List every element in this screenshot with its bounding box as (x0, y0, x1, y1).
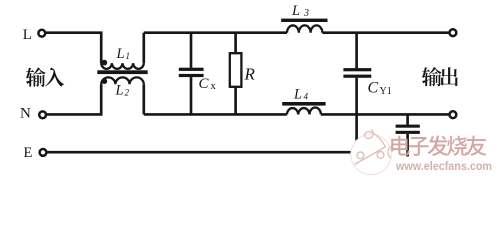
wire choke bottom right leg (142, 84, 145, 114)
svg-text:2: 2 (125, 88, 130, 98)
phase dot L1 (102, 60, 108, 66)
label L3 (291, 3, 309, 19)
svg-text:www.elecfans.com: www.elecfans.com (395, 159, 492, 173)
label 输出 (output) (422, 67, 458, 86)
svg-text:R: R (244, 65, 256, 84)
node E (earth terminal) (24, 145, 47, 161)
wire E ground rail (47, 151, 352, 154)
node N (neutral input terminal) (20, 106, 46, 122)
capacitor CY1 (343, 33, 371, 141)
svg-text:L: L (291, 3, 300, 19)
core of common-mode choke T1 (97, 70, 147, 74)
wire L input to choke (45, 33, 101, 64)
svg-text:L: L (116, 46, 125, 62)
capacitor CY2 (396, 114, 420, 156)
watermark logo bracket (388, 146, 392, 159)
capacitor Cx (179, 33, 204, 115)
watermark logo circle (351, 129, 391, 174)
svg-text:3: 3 (303, 8, 309, 19)
label 输入 (input) (26, 67, 64, 86)
svg-text:L: L (293, 87, 302, 103)
svg-text:N: N (20, 106, 31, 122)
svg-text:x: x (211, 81, 217, 92)
label L2 (115, 83, 130, 99)
svg-text:4: 4 (304, 92, 309, 102)
svg-text:Y1: Y1 (380, 86, 392, 97)
svg-text:1: 1 (126, 51, 131, 61)
inductor L3 (281, 19, 327, 33)
svg-text:L: L (23, 27, 32, 43)
node output bottom terminal (450, 111, 457, 118)
phase dot L2 (102, 78, 108, 84)
label L1 (116, 46, 131, 62)
wire bottom rail choke to L4 (144, 113, 287, 116)
node output top terminal (450, 29, 457, 36)
label L4 (293, 87, 309, 103)
label CY1 (368, 80, 392, 98)
inductor L1 winding (common-mode choke top) (101, 63, 144, 69)
node L (line input terminal) (23, 27, 45, 43)
svg-text:C: C (199, 76, 210, 92)
label Cx (199, 76, 217, 92)
inductor L4 (282, 102, 325, 114)
svg-text:C: C (368, 80, 379, 97)
svg-text:E: E (24, 145, 33, 161)
wire top rail choke to L3 (144, 31, 287, 34)
watermark text 电子发烧友 (391, 136, 486, 156)
wire N input to choke (46, 84, 101, 114)
wire choke top right leg (142, 33, 145, 64)
wire top rail L3 to output (322, 31, 449, 34)
wire bottom rail L4 to output (321, 113, 450, 116)
resistor R (230, 33, 242, 115)
svg-text:L: L (115, 83, 124, 99)
inductor L2 winding (common-mode choke bottom) (101, 77, 144, 84)
